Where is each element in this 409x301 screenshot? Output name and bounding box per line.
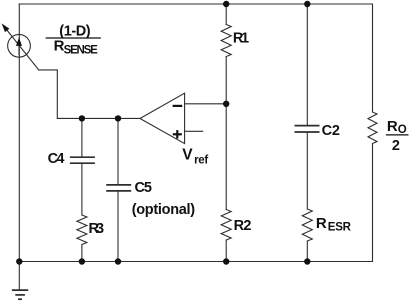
svg-text:R1: R1 [233,30,249,46]
svg-text:R: R [387,118,398,135]
svg-text:C4: C4 [48,151,65,167]
svg-text:C5: C5 [135,180,153,196]
svg-text:O: O [398,124,407,136]
svg-text:ESR: ESR [328,221,352,233]
svg-text:ref: ref [194,155,208,167]
svg-text:2: 2 [392,138,400,154]
svg-text:C2: C2 [322,123,340,139]
svg-text:SENSE: SENSE [64,44,99,56]
svg-text:(optional): (optional) [132,202,196,218]
svg-text:V: V [182,146,193,163]
svg-text:R2: R2 [234,218,252,234]
svg-text:R3: R3 [89,221,105,237]
svg-text:R: R [316,215,327,232]
